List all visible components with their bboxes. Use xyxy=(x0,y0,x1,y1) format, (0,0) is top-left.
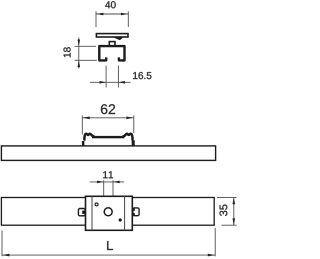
dimension L line xyxy=(2,254,215,256)
dimension 11 extension lines xyxy=(104,180,113,207)
dimension 16.5 arrows xyxy=(100,81,126,84)
dimension 40 arrows xyxy=(96,13,128,16)
dimension 40 label xyxy=(105,1,115,8)
side view: left side tab xyxy=(82,141,85,146)
dimension 62 line xyxy=(82,117,134,119)
top view: channel profile hat bump xyxy=(109,42,115,46)
top view: weld wedge under plate xyxy=(114,38,123,41)
plan view: small hole xyxy=(95,203,98,206)
side view: clamp bar xyxy=(92,136,125,138)
plan view: left side tab xyxy=(78,209,85,216)
plan view: plate left fold line xyxy=(91,196,93,230)
side view: right side tab xyxy=(132,140,135,146)
side view: rail body xyxy=(1,146,215,161)
dimension 11 arrows xyxy=(97,181,120,184)
dimension L label xyxy=(107,241,113,250)
dimension 11 line xyxy=(90,181,125,183)
plan view: plate right fold line xyxy=(124,196,126,230)
top view: channel profile body xyxy=(99,46,124,60)
dimension 35 line xyxy=(233,197,235,225)
plan view: right tab latch marks xyxy=(133,208,135,211)
plan view: rail body xyxy=(1,198,214,226)
plan view: right side tab xyxy=(133,208,139,216)
dimension 18 label xyxy=(64,47,71,57)
plan view: connector plate xyxy=(86,196,133,230)
dimension 18 extension lines xyxy=(75,46,97,60)
dimension 35 extension lines xyxy=(217,197,237,225)
dimension L extension lines xyxy=(2,228,215,256)
dimension 16.5 line xyxy=(90,81,131,83)
dimension 62 extension lines xyxy=(82,116,134,135)
dimension 35 label xyxy=(220,205,228,216)
dimension 16.5 extension lines xyxy=(106,66,118,88)
dimension 11 label xyxy=(103,171,113,178)
plan view: rivet dot xyxy=(119,218,122,221)
side view: clamp right rolled end xyxy=(123,134,132,140)
top view: clamp plate xyxy=(96,34,128,37)
side view: clamp left rolled end xyxy=(84,134,93,140)
plan view: center hole xyxy=(104,208,112,216)
dimension 18 line and arrows xyxy=(78,38,81,69)
dimension L arrows xyxy=(2,254,215,257)
dimension 62 label xyxy=(101,104,115,114)
dimension 40 line xyxy=(96,13,128,15)
dimension 16.5 label xyxy=(133,72,151,79)
dimension 40 extension lines xyxy=(96,11,128,27)
dimension 35 arrows xyxy=(233,197,236,225)
dimension 62 arrows xyxy=(82,117,134,120)
plan view: left tab latch mark xyxy=(82,211,85,214)
